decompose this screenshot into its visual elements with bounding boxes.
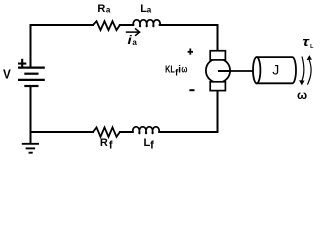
svg-text:f: f <box>150 139 154 151</box>
svg-text:KL: KL <box>165 64 175 76</box>
svg-text:V: V <box>3 67 11 82</box>
svg-text:a: a <box>147 6 152 15</box>
svg-text:J: J <box>272 62 279 78</box>
svg-text:ω: ω <box>181 64 187 76</box>
svg-text:ω: ω <box>297 88 307 102</box>
svg-text:R: R <box>97 3 105 15</box>
svg-text:R: R <box>100 137 108 149</box>
svg-text:f: f <box>109 139 113 151</box>
svg-text:τ: τ <box>302 34 309 49</box>
svg-text:a: a <box>106 6 111 15</box>
svg-text:a: a <box>132 38 137 47</box>
